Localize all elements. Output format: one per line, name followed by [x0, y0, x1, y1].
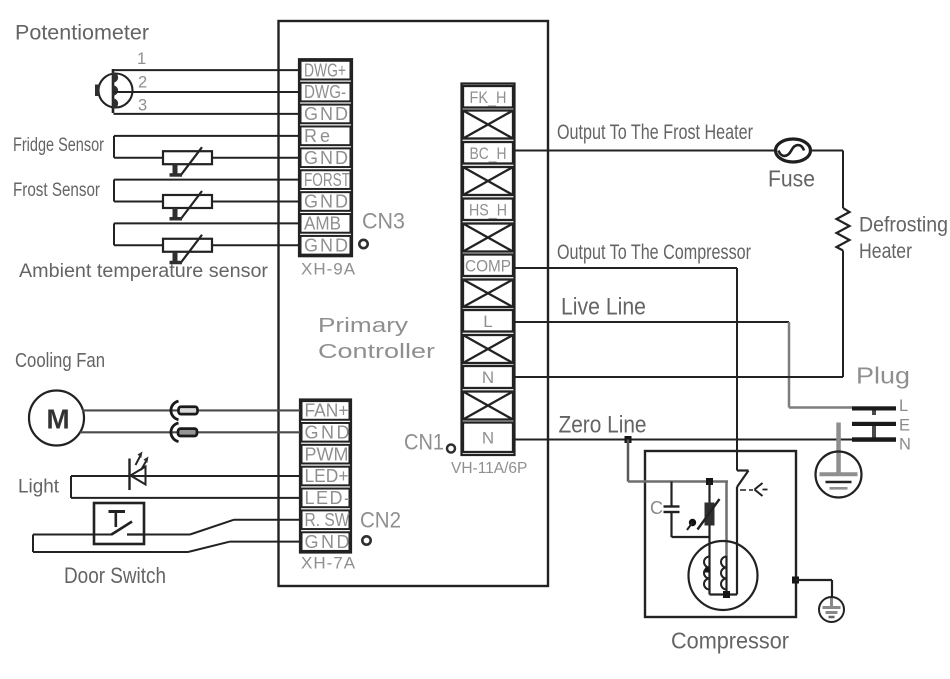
svg-text:N: N — [899, 436, 911, 454]
svg-text:Controller: Controller — [318, 341, 435, 363]
svg-text:2: 2 — [138, 74, 147, 92]
svg-text:Potentiometer: Potentiometer — [15, 22, 149, 45]
svg-text:Compressor: Compressor — [671, 628, 789, 654]
svg-text:C: C — [650, 498, 663, 518]
svg-text:1: 1 — [137, 50, 146, 68]
svg-text:LED-: LED- — [305, 488, 352, 508]
svg-text:FAN+: FAN+ — [305, 401, 349, 421]
svg-text:GND: GND — [305, 422, 353, 442]
svg-text:E: E — [899, 417, 910, 435]
svg-text:PWM: PWM — [305, 444, 349, 464]
svg-text:Frost Sensor: Frost Sensor — [13, 179, 100, 201]
svg-text:FORST: FORST — [304, 170, 350, 190]
svg-text:Output To The Frost Heater: Output To The Frost Heater — [557, 120, 753, 144]
svg-text:FK_H: FK_H — [470, 88, 507, 107]
svg-text:Cooling Fan: Cooling Fan — [15, 350, 105, 372]
svg-text:GND: GND — [304, 235, 350, 255]
svg-text:Ambient temperature sensor: Ambient temperature sensor — [19, 261, 269, 282]
svg-text:XH-7A: XH-7A — [301, 554, 356, 573]
svg-text:VH-11A/6P: VH-11A/6P — [451, 460, 527, 477]
svg-text:COMP: COMP — [465, 256, 511, 275]
svg-text:AMB: AMB — [304, 214, 341, 234]
svg-text:GND: GND — [304, 192, 350, 212]
svg-text:Heater: Heater — [859, 240, 912, 263]
svg-text:LED+: LED+ — [305, 466, 349, 486]
svg-text:L: L — [899, 397, 908, 415]
svg-text:Door Switch: Door Switch — [64, 563, 166, 588]
svg-text:DWG-: DWG- — [304, 82, 346, 102]
svg-text:3: 3 — [138, 97, 147, 115]
svg-text:N: N — [482, 368, 494, 387]
svg-text:GND: GND — [305, 532, 353, 552]
svg-text:CN2: CN2 — [360, 508, 401, 533]
svg-text:Fuse: Fuse — [768, 166, 815, 192]
svg-text:CN1: CN1 — [404, 430, 444, 455]
svg-text:Primary: Primary — [318, 315, 408, 337]
svg-text:Fridge Sensor: Fridge Sensor — [13, 134, 104, 156]
svg-text:Re: Re — [304, 126, 333, 146]
svg-text:GND: GND — [304, 148, 350, 168]
svg-text:GND: GND — [304, 104, 350, 124]
svg-text:XH-9A: XH-9A — [301, 260, 356, 279]
svg-text:M: M — [46, 404, 69, 435]
svg-text:L: L — [483, 312, 492, 331]
svg-text:Zero Line: Zero Line — [559, 412, 647, 439]
svg-text:R. SW: R. SW — [305, 510, 350, 530]
svg-text:Live Line: Live Line — [561, 294, 646, 321]
svg-text:Defrosting: Defrosting — [859, 214, 948, 237]
svg-text:Plug: Plug — [856, 363, 910, 389]
svg-text:DWG+: DWG+ — [304, 60, 346, 80]
svg-text:CN3: CN3 — [362, 209, 405, 234]
svg-text:N: N — [482, 428, 494, 447]
svg-text:Output To The Compressor: Output To The Compressor — [557, 240, 751, 264]
svg-text:HS_H: HS_H — [469, 200, 507, 219]
svg-text:Light: Light — [18, 476, 60, 498]
svg-text:BC_H: BC_H — [470, 144, 507, 163]
